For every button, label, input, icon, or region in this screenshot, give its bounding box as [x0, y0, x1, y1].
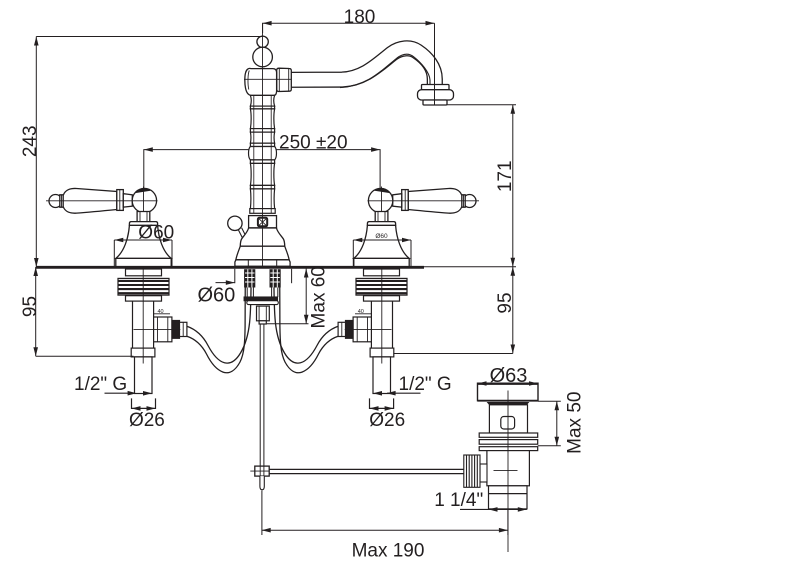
drain tailpipe: [489, 486, 528, 509]
svg-text:Max 50: Max 50: [565, 392, 586, 454]
svg-text:171: 171: [495, 160, 516, 192]
drain rings: [479, 433, 538, 451]
spout: [291, 48, 435, 87]
right hose: [274, 272, 338, 373]
lever end ball: [49, 188, 157, 213]
dimension O26 right: [370, 398, 394, 408]
handle neck: [137, 212, 150, 222]
dimension O63: [478, 381, 539, 386]
dimension 95 left: [36, 267, 134, 356]
svg-text:Ø63: Ø63: [490, 365, 528, 387]
drain flange: [478, 383, 539, 405]
svg-text:Max 60: Max 60: [309, 266, 330, 328]
dimension O60 center: [234, 269, 236, 283]
rod joint: [255, 466, 269, 476]
tee centerline: [134, 328, 181, 330]
drain centerline: [507, 391, 509, 553]
dimension 243: [36, 37, 262, 268]
svg-text:Ø60: Ø60: [198, 285, 236, 307]
pop-up rod: [260, 324, 264, 466]
dimension 95 right: [393, 267, 512, 354]
lever grip: [63, 188, 117, 213]
dimension 180: [263, 23, 435, 105]
drain neck: [489, 405, 527, 433]
svg-text:1/2" G: 1/2" G: [399, 374, 452, 395]
faucet base bell: [235, 228, 290, 266]
valve cross box: [248, 216, 277, 229]
handle right unit (mirror of left): [338, 187, 479, 394]
faucet body horizontal centerline: [244, 78, 292, 80]
lever end rings: [60, 195, 63, 207]
svg-text:Ø26: Ø26: [129, 410, 165, 431]
dimension O26 left: [132, 398, 156, 408]
lever stem: [123, 194, 132, 207]
spout outlet: [418, 85, 454, 106]
dimension 171: [447, 105, 516, 267]
handle bell: [116, 222, 171, 267]
handle left unit: [46, 187, 187, 394]
dimension 250 +-20 line (behind column): [144, 150, 380, 189]
column shaft: [249, 95, 277, 213]
handle ball: [132, 188, 156, 212]
svg-text:95: 95: [495, 292, 516, 313]
svg-text:250 ±20: 250 ±20: [279, 132, 348, 153]
dimension box O60 left: [114, 240, 172, 267]
column body joint: [245, 68, 277, 95]
column top knob small: [257, 36, 268, 47]
shank centerline: [142, 267, 144, 364]
svg-text:243: 243: [20, 125, 41, 157]
svg-text:Max 190: Max 190: [352, 541, 425, 562]
below-counter shank: [118, 269, 169, 394]
tee connector: [154, 317, 187, 342]
lever collar: [117, 190, 124, 211]
pop-up lever knob: [228, 216, 242, 230]
svg-text:Ø60: Ø60: [138, 223, 174, 244]
svg-text:180: 180: [344, 7, 376, 28]
spout collar: [277, 68, 292, 91]
handle centerline: [46, 200, 158, 202]
faucet centerline: [262, 23, 264, 267]
dimension Max 50: [538, 401, 561, 446]
dimension box O60 right (small label): [353, 240, 411, 267]
dimension Max 60: [267, 269, 309, 324]
svg-text:Ø60: Ø60: [375, 233, 388, 240]
center mounting studs: [244, 269, 281, 287]
drain body: [487, 451, 530, 486]
linkage rod: [269, 469, 464, 473]
svg-text:95: 95: [20, 296, 41, 317]
rod pin: [260, 476, 264, 490]
stud tails: [247, 288, 278, 298]
svg-text:1 1/4": 1 1/4": [434, 490, 483, 511]
left hose: [187, 272, 251, 373]
center bracket: [244, 297, 277, 301]
countertop: [36, 265, 516, 268]
svg-text:Ø26: Ø26: [369, 410, 405, 431]
drain knurled nut: [464, 455, 487, 487]
svg-text:1/2" G: 1/2" G: [74, 374, 127, 395]
column top knob big: [253, 47, 273, 67]
dimension Max 190: [262, 491, 508, 536]
center hose nut: [257, 306, 270, 324]
